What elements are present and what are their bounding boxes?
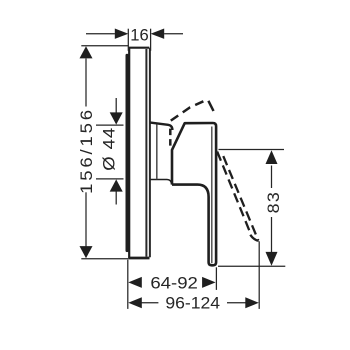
dim 156/156 bottom arrowhead (80, 246, 93, 258)
dim 64-92 left arrowhead (128, 277, 142, 288)
escutcheon plate inner right edge (145, 49, 147, 257)
lever inner contour line (211, 127, 213, 264)
shared left extension line for bottom dims (127, 260, 129, 309)
dim 16 left arrowhead (115, 29, 129, 39)
dim 156/156 top extension line (81, 45, 128, 47)
dim 64-92 right arrowhead (202, 277, 216, 288)
valve collar bottom edge (150, 180, 171, 184)
dim 83 bottom arrowhead (266, 252, 278, 266)
dim 83 dimension line lower part (271, 217, 273, 253)
dim 16 right extension line (150, 29, 152, 51)
dashed raised-lever end cap (208, 101, 213, 111)
dim 44 bottom tick (96, 178, 124, 180)
svg-text:64-92: 64-92 (150, 273, 198, 292)
svg-text:83: 83 (264, 191, 283, 214)
dim 44 top tick (96, 124, 124, 126)
dim 156/156 dimension line lower part (85, 192, 87, 247)
dim 83 dimension line upper part (271, 166, 273, 189)
dim 44 bottom stub line (115, 190, 117, 205)
svg-text:16: 16 (130, 26, 148, 45)
escutcheon plate outer right edge (wall side) (149, 48, 151, 258)
dim 44 top stub line (115, 98, 117, 115)
dim 96-124 left line stub (141, 302, 158, 304)
dim 96-124 right extension line (258, 241, 260, 309)
valve collar seam line (156, 124, 158, 179)
dashed open-lever back edge (223, 155, 259, 241)
dim 16 right arrowhead (151, 29, 165, 39)
svg-text:96-124: 96-124 (165, 294, 220, 312)
handle hub and lever outline (172, 123, 216, 265)
dim 96-124 right arrowhead (245, 297, 258, 308)
dashed raised-lever top edge (171, 99, 208, 120)
escutcheon plate outline (left edge + top edge) (129, 48, 149, 258)
dim 44 top arrowhead (110, 112, 123, 124)
dim 83 top arrowhead (266, 150, 278, 164)
valve collar top edge (150, 123, 172, 130)
dashed open-lever end cap (250, 235, 258, 241)
dim 64-92 right extension line (215, 267, 217, 290)
dim 83 top extension line (219, 149, 285, 151)
dashed open-lever front edge (217, 152, 250, 234)
svg-text:156/156: 156/156 (77, 107, 96, 194)
dashed raised-lever hub edge (169, 129, 172, 147)
dim 156/156 bottom extension line (81, 258, 128, 260)
dim 16 right dimension line (164, 33, 183, 35)
escutcheon plate bottom edge (128, 257, 149, 260)
dim 96-124 left arrowhead (128, 297, 142, 308)
escutcheon plate front lip (125, 55, 128, 250)
dim 16 left extension line (127, 29, 129, 51)
dim 156/156 top arrowhead (80, 46, 93, 58)
dim 44 bottom arrowhead (110, 179, 123, 191)
dim 83 bottom extension line (218, 265, 285, 267)
dim 96-124 right line stub (227, 302, 247, 304)
svg-text:Ø 44: Ø 44 (99, 127, 118, 171)
dim 16 left dimension line (86, 33, 115, 35)
dim 156/156 dimension line upper part (85, 59, 87, 107)
